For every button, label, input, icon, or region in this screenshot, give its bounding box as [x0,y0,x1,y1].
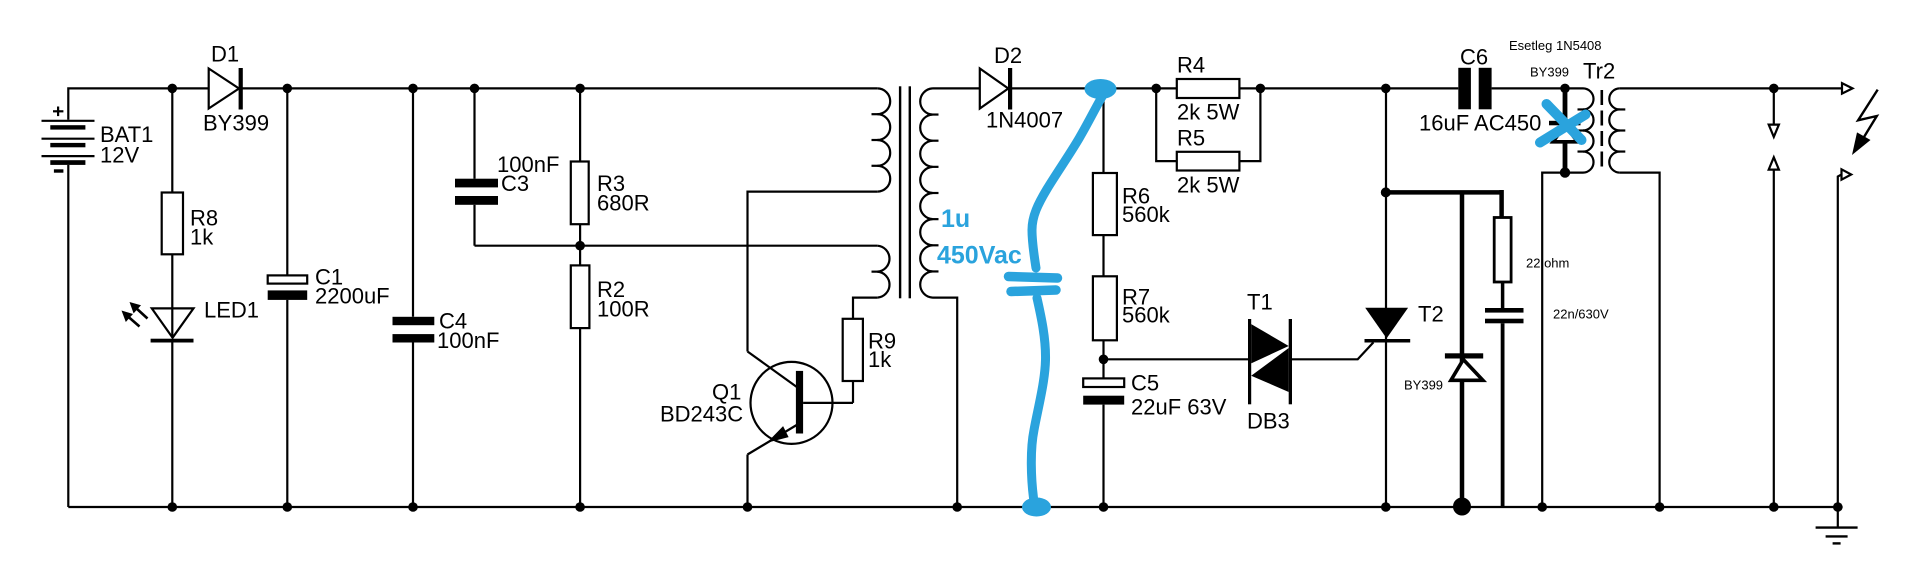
diode D2 [980,68,1012,110]
wire C4 branch top [412,88,414,316]
LED LED1 [122,302,194,343]
node bottom rail C5 [1099,502,1109,512]
wire R5 left branch [1156,88,1177,161]
wire R5 right branch [1239,88,1260,161]
svg-text:680R: 680R [597,191,650,216]
transformer Tr2 secondary winding [1609,88,1620,172]
node top rail R4 left [1151,84,1161,94]
node snubber junction [1381,187,1391,197]
transformer Tr1 primary lower tick [872,271,880,273]
wire R9 to base [852,381,854,403]
transformer Tr1 secondary winding [920,88,932,297]
node top rail C4 [408,84,418,94]
wire R9 top lead [853,298,877,319]
capacitor C5 [1083,378,1124,404]
blue annotation bottom blob [1022,498,1051,517]
node top rail C1 [283,84,293,94]
blue annotation top blob [1085,79,1117,99]
node bottom rail LED [168,502,178,512]
svg-text:1k: 1k [868,347,892,372]
wire top rail Tr2 secondary to output [1620,87,1842,89]
output arrow top [1842,83,1853,93]
svg-text:C3: C3 [501,171,529,196]
node R3 R2 junction [575,241,585,251]
node bottom rail spark gap [1769,502,1779,512]
wire 22n to bottom rail [1501,323,1505,506]
svg-text:1N4007: 1N4007 [986,108,1063,133]
svg-text:22uF 63V: 22uF 63V [1131,395,1227,420]
lightning bolt [1852,90,1878,155]
resistor R8 [162,193,183,255]
svg-text:C6: C6 [1460,45,1488,70]
capacitor C1 [268,275,308,300]
node top rail T2 branch [1381,84,1391,94]
transformer Tr1 core [899,86,911,298]
transformer Tr1 primary upper ticks [872,114,880,166]
transformer Tr1 primary upper winding [877,88,890,191]
wire R8 to LED1 [171,254,173,337]
blue annotation X stroke 2 [1540,115,1586,143]
svg-text:DB3: DB3 [1247,409,1290,434]
svg-text:BY399: BY399 [1530,65,1569,80]
blue annotation lower squiggle [1031,298,1045,498]
resistor R7 [1093,276,1117,340]
transistor Q1 [748,362,854,455]
wire C4 to bottom rail [412,343,414,508]
svg-text:12V: 12V [100,143,139,168]
node top rail R6 [1099,84,1109,94]
wire C1 branch top [286,88,288,275]
capacitor C6 [1458,68,1491,110]
svg-text:D1: D1 [211,42,239,67]
wire 22ohm to 22n [1501,282,1505,308]
resistor R3 [571,162,589,225]
node top rail R8 [168,84,178,94]
node top rail BY399 [1560,84,1570,94]
capacitor C4 [393,317,435,343]
svg-text:2200uF: 2200uF [315,284,390,309]
node bottom rail Tr2 secondary [1655,502,1665,512]
wire R3 branch top [579,88,581,161]
node top rail C3 [470,84,480,94]
svg-text:BY399: BY399 [203,111,269,136]
svg-text:450Vac: 450Vac [937,242,1022,270]
node bottom rail R2 [575,502,585,512]
node bottom rail C4 [408,502,418,512]
capacitor C3 [455,179,498,205]
transformer Tr2 primary winding [1583,88,1594,172]
resistor R9 [843,319,863,381]
wire R8 branch top [171,88,173,192]
wire top rail C6 to Tr2 [1492,87,1583,89]
node bottom rail C1 [283,502,293,512]
svg-text:Tr2: Tr2 [1583,59,1615,84]
node top rail output [1769,84,1779,94]
wire C1 to bottom rail [286,300,288,507]
wire R6 to R7 [1102,235,1104,276]
node bottom rail Tr2 primary [1537,502,1547,512]
wire LED1 to bottom rail [171,343,173,508]
wire emitter to bottom rail [746,455,748,508]
blue annotation upper squiggle [1032,95,1103,268]
wire feedback node horizontal [475,245,878,247]
wire R3 to R2 [579,224,581,265]
svg-text:BY399: BY399 [1404,378,1443,393]
diode BY399 lower [1445,353,1483,380]
wire C5 to bottom rail [1102,405,1104,507]
wire top rail left segment [68,88,877,119]
wire C3 bottom lead [473,205,475,246]
wire R6 branch top [1102,88,1104,173]
resistor R6 [1093,173,1117,235]
svg-text:T2: T2 [1418,302,1444,327]
battery BAT1 [42,107,95,173]
wire battery negative lead [67,165,69,507]
spark gap electrode lower [1769,157,1779,507]
wire Tr2 primary bottom return [1542,173,1583,507]
diode BY399 crossed out [1549,87,1581,173]
svg-text:22 ohm: 22 ohm [1526,256,1569,271]
output electrode right [1838,169,1851,507]
svg-text:100R: 100R [597,297,650,322]
svg-text:1k: 1k [190,225,214,250]
wire bottom rail [68,506,1842,508]
wire node to diac [1104,358,1249,360]
node top rail R4 right [1256,84,1266,94]
node R7 C5 junction [1099,355,1109,365]
svg-text:C5: C5 [1131,371,1159,396]
svg-text:R5: R5 [1177,126,1205,151]
wire snubber thick horizontal [1384,190,1502,195]
resistor R2 [571,265,590,328]
wire R7 to node [1102,340,1104,378]
node top rail R3 [575,84,585,94]
blue annotation capacitor plate 1 [1009,277,1058,279]
blue annotation capacitor plate 2 [1011,290,1056,292]
wire top rail Tr1 secondary to C6 [933,87,1459,89]
diac T1 DB3 [1248,319,1292,404]
wire C3 branch top [473,88,475,178]
wire Tr1 primary bottom to collector [748,192,878,352]
svg-text:Esetleg 1N5408: Esetleg 1N5408 [1509,38,1602,53]
wire freewheel diode branch [1460,192,1465,503]
node bottom rail Tr1 secondary [952,502,962,512]
terminal ring [1455,500,1468,513]
svg-text:2k 5W: 2k 5W [1177,173,1240,198]
wire 22ohm stub [1499,190,1504,218]
capacitor 22n/630V [1485,308,1524,323]
transformer Tr1 primary lower winding [877,246,889,298]
transformer Tr2 core dashed [1601,90,1604,171]
ground [1816,507,1858,543]
blue annotation X stroke 1 [1547,104,1582,140]
svg-text:100nF: 100nF [437,328,499,353]
svg-text:LED1: LED1 [204,298,259,323]
transformer Tr2 secondary ticks [1618,109,1625,151]
svg-text:560k: 560k [1122,303,1171,328]
svg-text:16uF AC450: 16uF AC450 [1419,111,1541,136]
svg-text:22n/630V: 22n/630V [1553,307,1609,322]
wire R2 to bottom rail [579,328,581,507]
thyristor T2 [1365,308,1411,343]
node bottom rail T2 [1381,502,1391,512]
resistor R5 [1177,152,1240,171]
svg-text:560k: 560k [1122,202,1171,227]
svg-text:R4: R4 [1177,53,1205,78]
transformer Tr2 primary ticks [1578,109,1585,151]
transformer Tr1 secondary ticks [931,115,939,272]
svg-text:2k 5W: 2k 5W [1177,100,1240,125]
resistor 22 ohm [1494,218,1511,283]
wire Tr2 secondary bottom return [1620,173,1660,507]
node bottom rail emitter [743,502,753,512]
svg-text:D2: D2 [994,43,1022,68]
svg-text:T1: T1 [1247,290,1273,315]
node bottom rail ground [1833,502,1843,512]
diode D1 [209,68,243,110]
svg-text:BD243C: BD243C [660,402,743,427]
wire Tr1 secondary bottom return [933,298,958,507]
wire T2 branch [1385,88,1387,507]
spark gap electrode upper [1769,88,1779,136]
wire collector diagonal [748,352,798,388]
svg-text:1u: 1u [941,205,970,233]
wire diac to thyristor gate [1292,342,1373,359]
resistor R4 [1177,79,1240,98]
node Tr2 primary bottom [1560,167,1570,177]
